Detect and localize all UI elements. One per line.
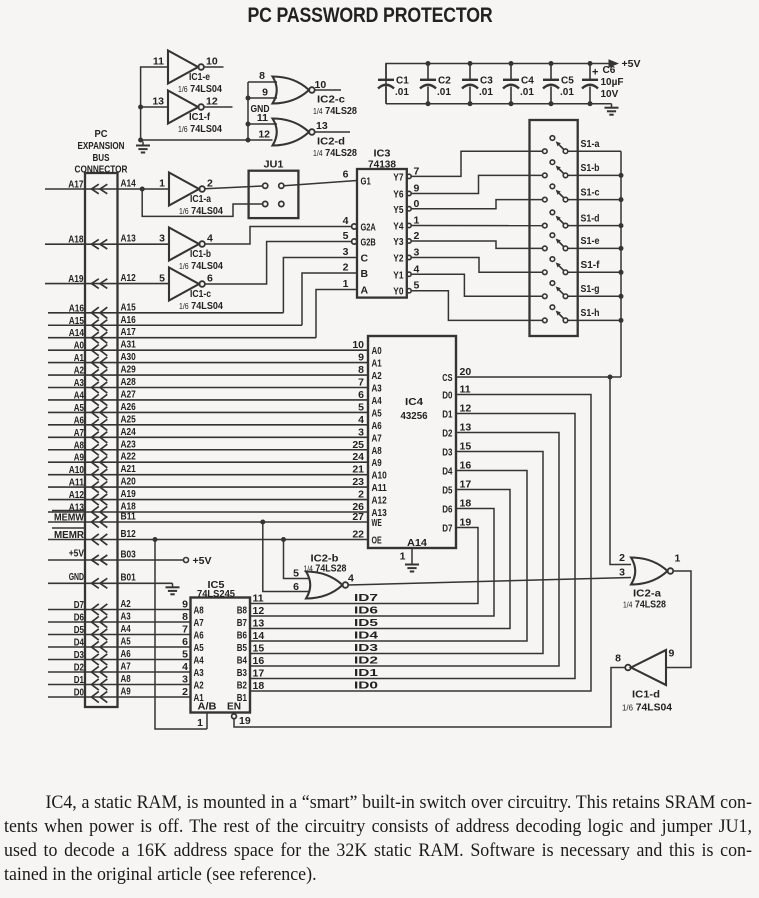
svg-text:1/4 74LS28: 1/4 74LS28	[313, 147, 357, 159]
svg-text:A5: A5	[74, 403, 85, 414]
wire connector row A4/A27	[48, 399, 368, 401]
svg-text:D3: D3	[74, 650, 85, 661]
wire connector row A15/A16	[48, 324, 302, 326]
svg-text:S1-d: S1-d	[581, 212, 600, 224]
svg-text:19: 19	[460, 517, 472, 529]
svg-text:D4: D4	[442, 467, 453, 478]
wire IC1-f output pin 12	[204, 106, 233, 108]
wire IC2-d pin 11 stub	[248, 123, 277, 125]
svg-text:11: 11	[257, 112, 268, 124]
svg-text:A6: A6	[121, 649, 132, 660]
svg-text:9: 9	[182, 599, 188, 611]
svg-text:25: 25	[352, 439, 364, 451]
svg-text:A3: A3	[74, 378, 85, 389]
svg-text:MEMW: MEMW	[54, 512, 84, 524]
svg-text:A8: A8	[372, 446, 383, 457]
switch block S1	[530, 120, 578, 336]
svg-text:D6: D6	[74, 613, 85, 624]
svg-text:JU1: JU1	[264, 159, 284, 171]
inverter IC1-c	[169, 268, 199, 301]
svg-text:3: 3	[182, 674, 188, 686]
wire D5 to ID5	[250, 490, 510, 629]
svg-text:A6: A6	[74, 415, 85, 426]
wire Y7 to S1-a	[411, 151, 542, 176]
svg-text:D0: D0	[442, 391, 453, 402]
svg-text:D3: D3	[442, 448, 453, 459]
svg-text:13: 13	[152, 96, 164, 108]
svg-text:5: 5	[182, 649, 188, 661]
switch S1-f	[543, 270, 548, 275]
svg-text:B4: B4	[237, 656, 248, 667]
junction bus at S1-b	[619, 173, 624, 178]
switch S1-a	[543, 149, 548, 154]
svg-text:S1-b: S1-b	[581, 162, 600, 174]
svg-text:Y0: Y0	[393, 287, 404, 298]
ram IC4 43256	[368, 336, 456, 548]
svg-text:2: 2	[358, 489, 364, 501]
svg-text:13: 13	[460, 422, 472, 434]
svg-text:ID3: ID3	[354, 642, 378, 654]
decoder IC3 74138	[357, 169, 407, 298]
svg-text:A: A	[361, 285, 369, 297]
svg-text:1: 1	[159, 178, 165, 190]
svg-text:6: 6	[293, 581, 299, 593]
wire connector row D1/A8	[48, 684, 191, 686]
svg-text:A15: A15	[121, 302, 137, 313]
junction rail at C2	[426, 61, 431, 66]
wire CS to switch bus	[456, 376, 621, 378]
svg-text:WE: WE	[372, 518, 382, 529]
svg-text:+5V: +5V	[69, 549, 85, 560]
svg-text:B6: B6	[237, 631, 248, 642]
switch S1-b	[543, 173, 548, 178]
capacitor C1 .01	[385, 64, 387, 80]
svg-text:4: 4	[348, 573, 354, 585]
junction rail at C4	[509, 61, 514, 66]
wire JU1 bypass from A14	[142, 189, 262, 216]
wire A16 to IC3 B	[302, 273, 357, 325]
svg-text:12: 12	[258, 129, 270, 141]
switch S1-c	[543, 197, 548, 202]
junction ground tap	[138, 138, 143, 143]
wire IC1-f input	[141, 106, 168, 108]
wire S1 common bus	[620, 151, 622, 377]
svg-text:6: 6	[358, 389, 364, 401]
svg-text:4: 4	[343, 215, 349, 227]
svg-text:S1-a: S1-a	[581, 138, 600, 150]
junction pin 9 tap	[246, 96, 251, 101]
svg-text:C5: C5	[561, 76, 574, 87]
wire connector row D0/A9	[48, 696, 191, 698]
svg-text:A11: A11	[372, 483, 388, 494]
ground G1 top-left	[142, 142, 144, 146]
svg-text:74138: 74138	[368, 159, 396, 170]
svg-text:9: 9	[262, 87, 268, 99]
svg-text:12: 12	[460, 403, 472, 415]
junction IC1-f input tap	[138, 105, 143, 110]
svg-text:6: 6	[207, 273, 213, 285]
ground B01	[172, 583, 174, 587]
svg-text:0: 0	[414, 198, 420, 210]
wire MEMR to IC2-b pin 5	[284, 540, 311, 579]
svg-text:CS: CS	[442, 373, 452, 384]
svg-text:IC1-b: IC1-b	[190, 249, 211, 260]
svg-text:A30: A30	[121, 352, 137, 363]
svg-text:1/6 74LS04: 1/6 74LS04	[179, 205, 223, 217]
svg-text:18: 18	[253, 680, 265, 692]
wire Y0 to S1-h	[411, 291, 542, 321]
capacitor C4 .01	[510, 64, 512, 80]
svg-text:A19: A19	[68, 274, 84, 285]
svg-text:A2: A2	[74, 366, 85, 377]
wire connector row D2/A7	[48, 671, 191, 673]
svg-text:S1-g: S1-g	[581, 283, 600, 295]
svg-text:IC1-c: IC1-c	[190, 289, 211, 300]
power +5V arrow	[609, 59, 620, 67]
svg-text:A3: A3	[121, 612, 132, 623]
wire connector row A9/A22	[48, 461, 368, 463]
wire connector row MEMW/B11	[48, 521, 368, 523]
svg-text:A1: A1	[74, 353, 85, 364]
svg-text:8: 8	[615, 653, 621, 665]
svg-text:A2: A2	[194, 681, 205, 692]
svg-text:ID4: ID4	[354, 630, 378, 642]
wire D0 to ID0	[250, 395, 591, 692]
NOR gate IC2-c	[273, 77, 310, 104]
wire CS to IC2-a pin 2	[610, 377, 631, 565]
svg-text:A6: A6	[372, 421, 383, 432]
svg-text:IC1-e: IC1-e	[189, 72, 210, 83]
svg-text:D1: D1	[74, 675, 85, 686]
wire connector row A13/A18	[48, 511, 368, 513]
wire Y6 to S1-b	[411, 175, 542, 193]
svg-text:.01: .01	[520, 87, 534, 98]
svg-text:EN: EN	[227, 701, 241, 713]
wire S1-f to bus	[568, 271, 621, 273]
svg-text:8: 8	[182, 611, 188, 623]
wire S1-b to bus	[568, 174, 621, 176]
wire S1-g to bus	[568, 295, 621, 297]
svg-text:OE: OE	[372, 536, 382, 547]
svg-text:IC1-a: IC1-a	[190, 194, 211, 205]
svg-text:D0: D0	[74, 688, 85, 699]
wire connector row A1/A30	[48, 362, 368, 364]
node +5V tap	[184, 558, 189, 563]
svg-text:A22: A22	[121, 452, 137, 463]
svg-text:B: B	[361, 268, 369, 280]
svg-text:B01: B01	[121, 572, 137, 583]
svg-text:A25: A25	[121, 414, 137, 425]
svg-text:1/6 74LS04: 1/6 74LS04	[178, 123, 222, 135]
svg-text:A17: A17	[68, 180, 84, 191]
wire S1-e to bus	[568, 247, 621, 249]
svg-text:S1-h: S1-h	[581, 307, 600, 319]
junction MEMW tap	[260, 520, 265, 525]
junction A14 tap at IC1-a input	[140, 187, 145, 192]
wire connector row A16/A15	[48, 312, 283, 314]
svg-text:11: 11	[153, 56, 164, 68]
svg-text:A12: A12	[69, 490, 85, 501]
svg-text:D1: D1	[442, 410, 453, 421]
svg-text:A23: A23	[121, 439, 137, 450]
svg-text:10: 10	[315, 79, 327, 91]
svg-text:23: 23	[352, 476, 364, 488]
svg-text:A4: A4	[194, 656, 205, 667]
svg-text:S1-c: S1-c	[581, 186, 600, 198]
svg-text:3: 3	[159, 233, 165, 245]
svg-text:1/4 74LS28: 1/4 74LS28	[623, 599, 666, 611]
svg-text:C6: C6	[603, 65, 616, 76]
switch S1-g	[543, 294, 548, 299]
connector PC expansion bus	[85, 173, 118, 707]
wire S1-a to bus	[568, 150, 621, 152]
svg-text:3: 3	[343, 246, 349, 258]
svg-text:MEMR: MEMR	[54, 529, 84, 541]
svg-text:B2: B2	[237, 681, 248, 692]
svg-text:9: 9	[414, 183, 420, 195]
wire connector row D4/A5	[48, 646, 191, 648]
wire connector row +5V/B03	[48, 559, 183, 561]
wire D7 to ID7	[250, 528, 478, 604]
wire IC4 A14 pin 1 to ground	[411, 548, 413, 561]
capacitor C3 .01	[469, 64, 471, 80]
svg-text:11: 11	[460, 384, 471, 396]
svg-text:6: 6	[343, 169, 349, 181]
svg-text:1: 1	[400, 551, 406, 563]
junction pin 11 tap	[246, 122, 251, 127]
wire connector row A8/A23	[48, 449, 368, 451]
svg-text:13: 13	[316, 120, 328, 132]
svg-text:15: 15	[460, 441, 472, 453]
inverter IC1-f	[168, 91, 198, 124]
svg-text:A2: A2	[372, 371, 383, 382]
svg-text:IC2-d: IC2-d	[317, 137, 345, 148]
svg-text:.01: .01	[395, 87, 409, 98]
wire Y3 to S1-e	[411, 241, 542, 248]
svg-text:A8: A8	[74, 440, 85, 451]
svg-text:A10: A10	[69, 465, 85, 476]
svg-text:C2: C2	[438, 76, 451, 87]
svg-text:G2A: G2A	[361, 223, 376, 234]
wire IC2-b output to IC2-a pin 3	[348, 578, 631, 586]
wire IC2-a output to IC1-d input	[666, 571, 691, 668]
svg-text:1: 1	[197, 717, 203, 729]
wire connector row A19/A12	[45, 283, 169, 285]
wire IC2-c pin 9 stub	[248, 97, 277, 99]
wire IC1-a output to JU1	[205, 186, 263, 189]
wire D4 to ID4	[250, 471, 527, 642]
svg-text:8: 8	[358, 364, 364, 376]
svg-text:D5: D5	[74, 625, 85, 636]
svg-text:.01: .01	[560, 87, 574, 98]
svg-text:A29: A29	[121, 365, 137, 376]
svg-text:B5: B5	[237, 643, 248, 654]
wire connector row A3/A28	[48, 387, 368, 389]
wire A15 to IC3 C	[283, 258, 357, 313]
svg-text:IC1-d: IC1-d	[632, 690, 660, 701]
wire Y1 to S1-g	[411, 274, 542, 296]
wire MEMR junction to IC5 A/B	[153, 537, 158, 542]
svg-text:A0: A0	[74, 341, 85, 352]
svg-text:7: 7	[182, 624, 188, 636]
svg-text:ID1: ID1	[354, 667, 378, 679]
svg-text:19: 19	[239, 715, 251, 727]
wire IC1-c output to IC3 G2B	[205, 242, 351, 285]
svg-text:3: 3	[358, 426, 364, 438]
wire D2 to ID2	[250, 433, 559, 667]
ground capacitor bank	[611, 104, 613, 108]
svg-text:A16: A16	[69, 303, 85, 314]
svg-text:14: 14	[253, 630, 265, 642]
svg-text:.01: .01	[479, 87, 493, 98]
svg-text:1/6 74LS04: 1/6 74LS04	[178, 83, 222, 95]
wire IC5 EN pin 19 bubble	[232, 714, 237, 719]
junction bus at S1-c	[619, 197, 624, 202]
wire IC5 A/B pin 1 stub	[206, 713, 208, 730]
wire MEMW to IC2-b pin 6	[263, 522, 310, 592]
svg-text:GND: GND	[69, 572, 84, 583]
inverter IC1-b	[169, 228, 199, 261]
svg-text:EXPANSION: EXPANSION	[78, 141, 125, 152]
wire connector row A6/A25	[48, 424, 368, 426]
svg-text:A7: A7	[194, 618, 205, 629]
svg-text:13: 13	[253, 618, 265, 630]
svg-text:B11: B11	[121, 512, 137, 523]
svg-text:B7: B7	[237, 618, 248, 629]
wire IC2-c pin 8 stub	[248, 81, 277, 83]
wire connector row A17/A14	[45, 188, 169, 190]
svg-text:1: 1	[414, 215, 420, 227]
svg-text:C1: C1	[396, 76, 409, 87]
svg-text:Y7: Y7	[393, 172, 404, 183]
svg-text:9: 9	[358, 352, 364, 364]
wire IC2-d output pin 13	[315, 131, 350, 133]
jumper JU1	[249, 171, 299, 218]
svg-text:BUS: BUS	[93, 153, 110, 164]
junction pin 12 tap	[246, 138, 251, 143]
svg-text:5: 5	[343, 230, 349, 242]
svg-text:1/4 74LS28: 1/4 74LS28	[313, 105, 357, 117]
svg-text:Y2: Y2	[393, 254, 404, 265]
ground IC4 A14	[411, 561, 413, 565]
svg-text:5: 5	[414, 280, 420, 292]
svg-text:G2B: G2B	[361, 238, 376, 249]
wire Y5 to S1-c	[411, 200, 542, 209]
svg-text:A7: A7	[74, 428, 85, 439]
svg-text:8: 8	[259, 70, 265, 82]
svg-text:10: 10	[352, 339, 364, 351]
svg-text:27: 27	[352, 511, 364, 523]
wire connector row D6/A3	[48, 621, 191, 623]
svg-text:A14: A14	[407, 537, 427, 549]
svg-text:18: 18	[460, 498, 472, 510]
wire D3 to ID3	[250, 452, 543, 654]
wire S1-h to bus	[568, 319, 621, 321]
svg-text:A0: A0	[372, 346, 383, 357]
svg-text:7: 7	[414, 165, 420, 177]
svg-text:IC2-c: IC2-c	[317, 95, 346, 106]
svg-text:B03: B03	[121, 550, 137, 561]
wire +5V top rail	[386, 64, 611, 104]
svg-text:74LS245: 74LS245	[197, 589, 235, 600]
svg-text:Y4: Y4	[393, 222, 404, 233]
svg-text:17: 17	[460, 479, 472, 491]
svg-text:ID7: ID7	[354, 592, 378, 604]
switch S1-e	[543, 246, 548, 251]
svg-text:A5: A5	[194, 643, 205, 654]
svg-text:5: 5	[293, 568, 299, 580]
wire JU1 to IC3 G1 pin 6	[284, 181, 357, 186]
svg-text:A7: A7	[372, 433, 383, 444]
svg-text:PC PASSWORD PROTECTOR: PC PASSWORD PROTECTOR	[248, 3, 494, 27]
buffer IC5 74LS245	[191, 598, 251, 713]
svg-text:9: 9	[669, 648, 675, 660]
svg-text:A16: A16	[121, 315, 137, 326]
svg-text:A9: A9	[74, 453, 85, 464]
svg-text:A28: A28	[121, 377, 137, 388]
svg-text:1/4 74LS28: 1/4 74LS28	[304, 563, 347, 575]
inverter IC1-e	[168, 51, 198, 84]
svg-text:16: 16	[460, 460, 472, 472]
junction bus at S1-f	[619, 270, 624, 275]
svg-text:Y3: Y3	[393, 237, 404, 248]
wire connector row A5/A26	[48, 411, 368, 413]
wire connector row A12/A19	[48, 499, 368, 501]
svg-text:2: 2	[619, 552, 625, 564]
svg-text:.01: .01	[437, 87, 451, 98]
svg-text:2: 2	[182, 686, 188, 698]
svg-text:A26: A26	[121, 402, 137, 413]
svg-text:A12: A12	[372, 496, 388, 507]
svg-text:21: 21	[352, 464, 364, 476]
svg-text:A2: A2	[121, 599, 132, 610]
svg-text:A15: A15	[69, 316, 85, 327]
svg-text:10V: 10V	[601, 89, 619, 100]
svg-text:17: 17	[253, 668, 265, 680]
svg-text:ID5: ID5	[354, 617, 378, 629]
svg-text:15: 15	[253, 643, 265, 655]
svg-text:A10: A10	[372, 471, 388, 482]
svg-text:11: 11	[253, 593, 264, 605]
wire EN to IC1-d output	[234, 668, 625, 728]
svg-text:B12: B12	[121, 529, 137, 540]
svg-text:6: 6	[182, 636, 188, 648]
wire Y4 to S1-d	[411, 225, 542, 227]
svg-text:+: +	[592, 67, 598, 79]
junction rail at C3	[468, 61, 473, 66]
wire IC1-e output pin 10	[204, 66, 224, 68]
svg-text:D5: D5	[442, 486, 453, 497]
svg-text:1: 1	[343, 278, 349, 290]
svg-text:A3: A3	[372, 384, 383, 395]
wire S1-c to bus	[568, 199, 621, 201]
wire connector row A18/A13	[45, 243, 169, 245]
svg-text:A9: A9	[372, 458, 383, 469]
svg-text:IC1-f: IC1-f	[189, 112, 211, 123]
NOR gate IC2-a	[631, 558, 668, 585]
svg-text:A18: A18	[68, 235, 84, 246]
svg-text:A1: A1	[372, 359, 383, 370]
svg-text:3: 3	[619, 567, 625, 579]
svg-text:B3: B3	[237, 668, 248, 679]
svg-text:A8: A8	[194, 606, 205, 617]
wire NOR gates input tie vertical	[247, 82, 249, 140]
svg-text:A3: A3	[194, 668, 205, 679]
svg-text:+5V: +5V	[622, 58, 641, 70]
svg-text:5: 5	[358, 401, 364, 413]
svg-text:10µF: 10µF	[601, 77, 624, 88]
svg-text:A4: A4	[372, 396, 383, 407]
